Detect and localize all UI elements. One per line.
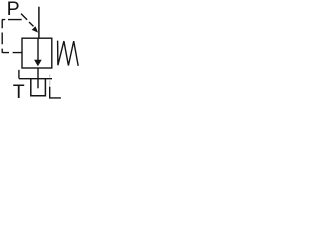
pilot line dashed horizontal to valve left side	[2, 52, 22, 54]
svg-text:T: T	[13, 81, 25, 103]
flow arrow shaft inside valve	[37, 38, 39, 60]
wire P supply vertical	[38, 7, 40, 39]
drain line elbow	[50, 87, 61, 98]
wire T port stub	[18, 70, 20, 79]
pilot line dashed horizontal top	[2, 19, 22, 21]
wire horizontal T run	[19, 78, 52, 80]
valve body square	[22, 38, 52, 68]
drain line faint dashes	[49, 75, 51, 86]
pilot line dashed vertical left	[1, 20, 3, 53]
pilot arrow head	[32, 26, 38, 32]
svg-text:P: P	[7, 0, 20, 20]
spring	[58, 41, 79, 66]
pilot arrow dashed diagonal	[21, 14, 34, 27]
wire valve outlet vertical to tank	[37, 68, 39, 88]
flow arrow head	[34, 60, 42, 67]
tank symbol	[31, 79, 46, 96]
